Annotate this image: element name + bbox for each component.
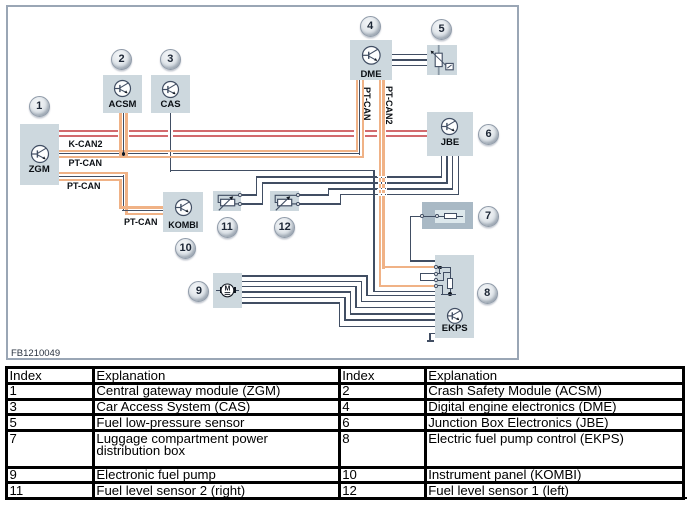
wire PT-CAN2nd vertical orange left xyxy=(119,179,121,209)
label KOMBI xyxy=(153,220,213,230)
label EKPS xyxy=(425,323,485,334)
control module DME box xyxy=(350,40,392,80)
wire fuel pump line 2 to EKPS xyxy=(242,281,362,283)
wire JBE line 2 to sensor 11 lower xyxy=(446,156,448,184)
control module CAS box xyxy=(151,75,190,113)
wire PT-CAN2 orange left (DME down to EKPS T4) xyxy=(379,80,381,287)
label PT-CAN at KOMBI xyxy=(124,217,158,227)
wire CAS long vertical down xyxy=(373,170,375,293)
control module ZGM box xyxy=(20,124,60,185)
control module ACSM box xyxy=(103,75,142,113)
legend table xyxy=(5,366,685,500)
wire fuel pump line 5 to EKPS xyxy=(242,297,346,299)
wire fuel pump line 1 to EKPS xyxy=(242,275,368,277)
index ball 9 xyxy=(188,281,209,302)
wire PT-CAN orange bottom (ZGM to DME corner) xyxy=(59,156,364,158)
EKPS wire T1 to resistor xyxy=(440,267,451,268)
wire fuel pump line 3 to EKPS xyxy=(242,286,357,288)
EKPS node dot A xyxy=(438,266,442,270)
fuel pump box (component 9) xyxy=(213,273,242,308)
wire PT-CAN2nd dark core lower run xyxy=(122,210,163,212)
EKPS terminal T1 xyxy=(434,265,438,269)
EKPS wire T3 up to resistor node xyxy=(438,280,445,281)
index ball 8 xyxy=(477,283,498,304)
index ball 3 xyxy=(160,49,181,70)
label PT-CAN second xyxy=(67,181,101,191)
EKPS terminal T2 xyxy=(434,272,438,276)
index ball 6 xyxy=(478,124,499,145)
fuel level sensor 1 symbol (12) xyxy=(270,191,300,212)
EKPS node dot B xyxy=(448,292,452,296)
diagram border frame xyxy=(6,5,519,360)
EKPS wire resistor to node B xyxy=(450,289,451,294)
wire JBE line 1 to sensor 11 upper xyxy=(441,156,443,178)
box 7 luggage compartment power distribution box xyxy=(422,202,473,229)
control module JBE box xyxy=(427,112,473,156)
wire JBE line 4 to sensor 12 lower xyxy=(458,156,460,195)
fuse symbol in box 7 xyxy=(424,216,463,218)
index ball 4 xyxy=(360,16,381,37)
wire CAS vertical drop xyxy=(170,113,172,172)
EKPS external jumper loop T2-T3 xyxy=(421,273,435,274)
EKPS node B bar xyxy=(441,294,456,295)
wire PT-CAN2nd orange top lower run xyxy=(119,206,163,208)
ECU symbol in KOMBI xyxy=(174,198,193,217)
label DME xyxy=(341,69,401,80)
EKPS wire T4 down to node B xyxy=(438,285,443,286)
wire PT-CAN2 orange right (DME down to EKPS T1) xyxy=(382,80,384,269)
fuel pump motor symbol xyxy=(216,290,220,291)
index ball 1 xyxy=(29,96,50,117)
wire PT-CAN2nd orange top upper run xyxy=(59,172,128,174)
wire PT-CAN2nd vertical orange right xyxy=(125,172,127,215)
wire fuel pump line 4 to EKPS xyxy=(242,291,351,293)
wire DME to sensor-5 line 2 xyxy=(392,59,427,61)
wire JBE line 3 to sensor 12 upper xyxy=(452,156,454,190)
wire K-CAN2 bus line 2 (ZGM to JBE) xyxy=(59,135,118,137)
junction dot ACSM/PT-CAN xyxy=(122,152,126,156)
index ball 10 xyxy=(175,238,196,259)
sensor 5 symbol (fuel low-pressure sensor) xyxy=(427,45,458,75)
crossing breaks of JBE lines over PT-CAN2 xyxy=(377,176,387,179)
sensor 5 box (fuel low-pressure sensor) xyxy=(427,45,458,75)
wire PT-CAN2nd dark core upper run xyxy=(59,176,124,178)
EKPS wire T2 jumper to node A xyxy=(438,273,441,274)
index ball 5 xyxy=(431,19,452,40)
label K-CAN2 xyxy=(69,139,103,149)
ECU symbol in ACSM xyxy=(113,79,132,98)
label PT-CAN upper xyxy=(69,158,103,168)
EKPS terminal T3 xyxy=(434,278,438,282)
ECU symbol in DME xyxy=(361,45,382,66)
wire PT-CAN vertical orange left (DME) xyxy=(356,80,358,152)
wire PT-CAN dark core (ZGM to DME corner) xyxy=(59,153,168,155)
terminal circle box7 fuse xyxy=(435,214,439,218)
wire ACSM drop orange right xyxy=(125,113,127,158)
ECU symbol in JBE xyxy=(440,117,459,136)
label ZGM xyxy=(9,164,69,175)
wire CAS into EKPS xyxy=(373,291,443,293)
svg-text:M: M xyxy=(225,285,231,292)
index ball 12 xyxy=(274,217,295,238)
wire CAS horizontal run xyxy=(170,170,375,172)
figure number FB1210049 xyxy=(11,348,60,359)
box 7 inner panel xyxy=(435,210,465,223)
wire ACSM drop dark core xyxy=(123,113,125,153)
label PT-CAN vertical xyxy=(362,87,372,121)
wire PT-CAN vertical dark core (DME) xyxy=(359,80,361,155)
wire DME to sensor-5 line 3 xyxy=(392,65,427,67)
fuel level sensor 2 symbol (11) xyxy=(213,191,243,212)
label CAS xyxy=(141,99,201,110)
control module KOMBI box xyxy=(163,192,203,232)
wire PT-CAN orange top (ZGM to DME corner) xyxy=(59,150,358,152)
ECU symbol in CAS xyxy=(161,80,180,99)
ground symbol below EKPS xyxy=(430,333,436,335)
wire PT-CAN vertical orange right (DME) xyxy=(362,80,364,158)
EKPS terminal T4 xyxy=(434,284,438,288)
label JBE xyxy=(420,137,480,148)
EKPS resistor xyxy=(447,278,453,290)
legend table bottom border thickening xyxy=(5,497,687,499)
fuel level sensor 1 box (component 12) xyxy=(270,191,299,211)
label ACSM xyxy=(93,99,153,110)
index ball 2 xyxy=(111,49,132,70)
wire ACSM drop orange left xyxy=(119,113,121,158)
label PT-CAN2 vertical xyxy=(384,86,394,125)
control module EKPS box xyxy=(435,255,474,338)
ECU symbol in EKPS xyxy=(446,307,464,325)
terminal circle box7 left xyxy=(420,214,424,218)
wire box-7 to EKPS xyxy=(411,216,421,218)
wire PT-CAN2nd orange bottom upper run xyxy=(59,179,122,181)
wire PT-CAN2nd orange bottom lower run xyxy=(125,213,163,215)
wire PT-CAN2nd vertical dark core xyxy=(123,175,125,211)
wire fuel pump line 6 to EKPS xyxy=(242,302,340,304)
ECU symbol in ZGM xyxy=(30,144,50,164)
wire DME to sensor-5 line 1 xyxy=(392,54,427,56)
wire K-CAN2 bus line 1 (ZGM to JBE) xyxy=(59,130,118,132)
index ball 11 xyxy=(217,217,238,238)
fuel level sensor 2 box (component 11) xyxy=(213,191,242,211)
index ball 7 xyxy=(478,206,499,227)
